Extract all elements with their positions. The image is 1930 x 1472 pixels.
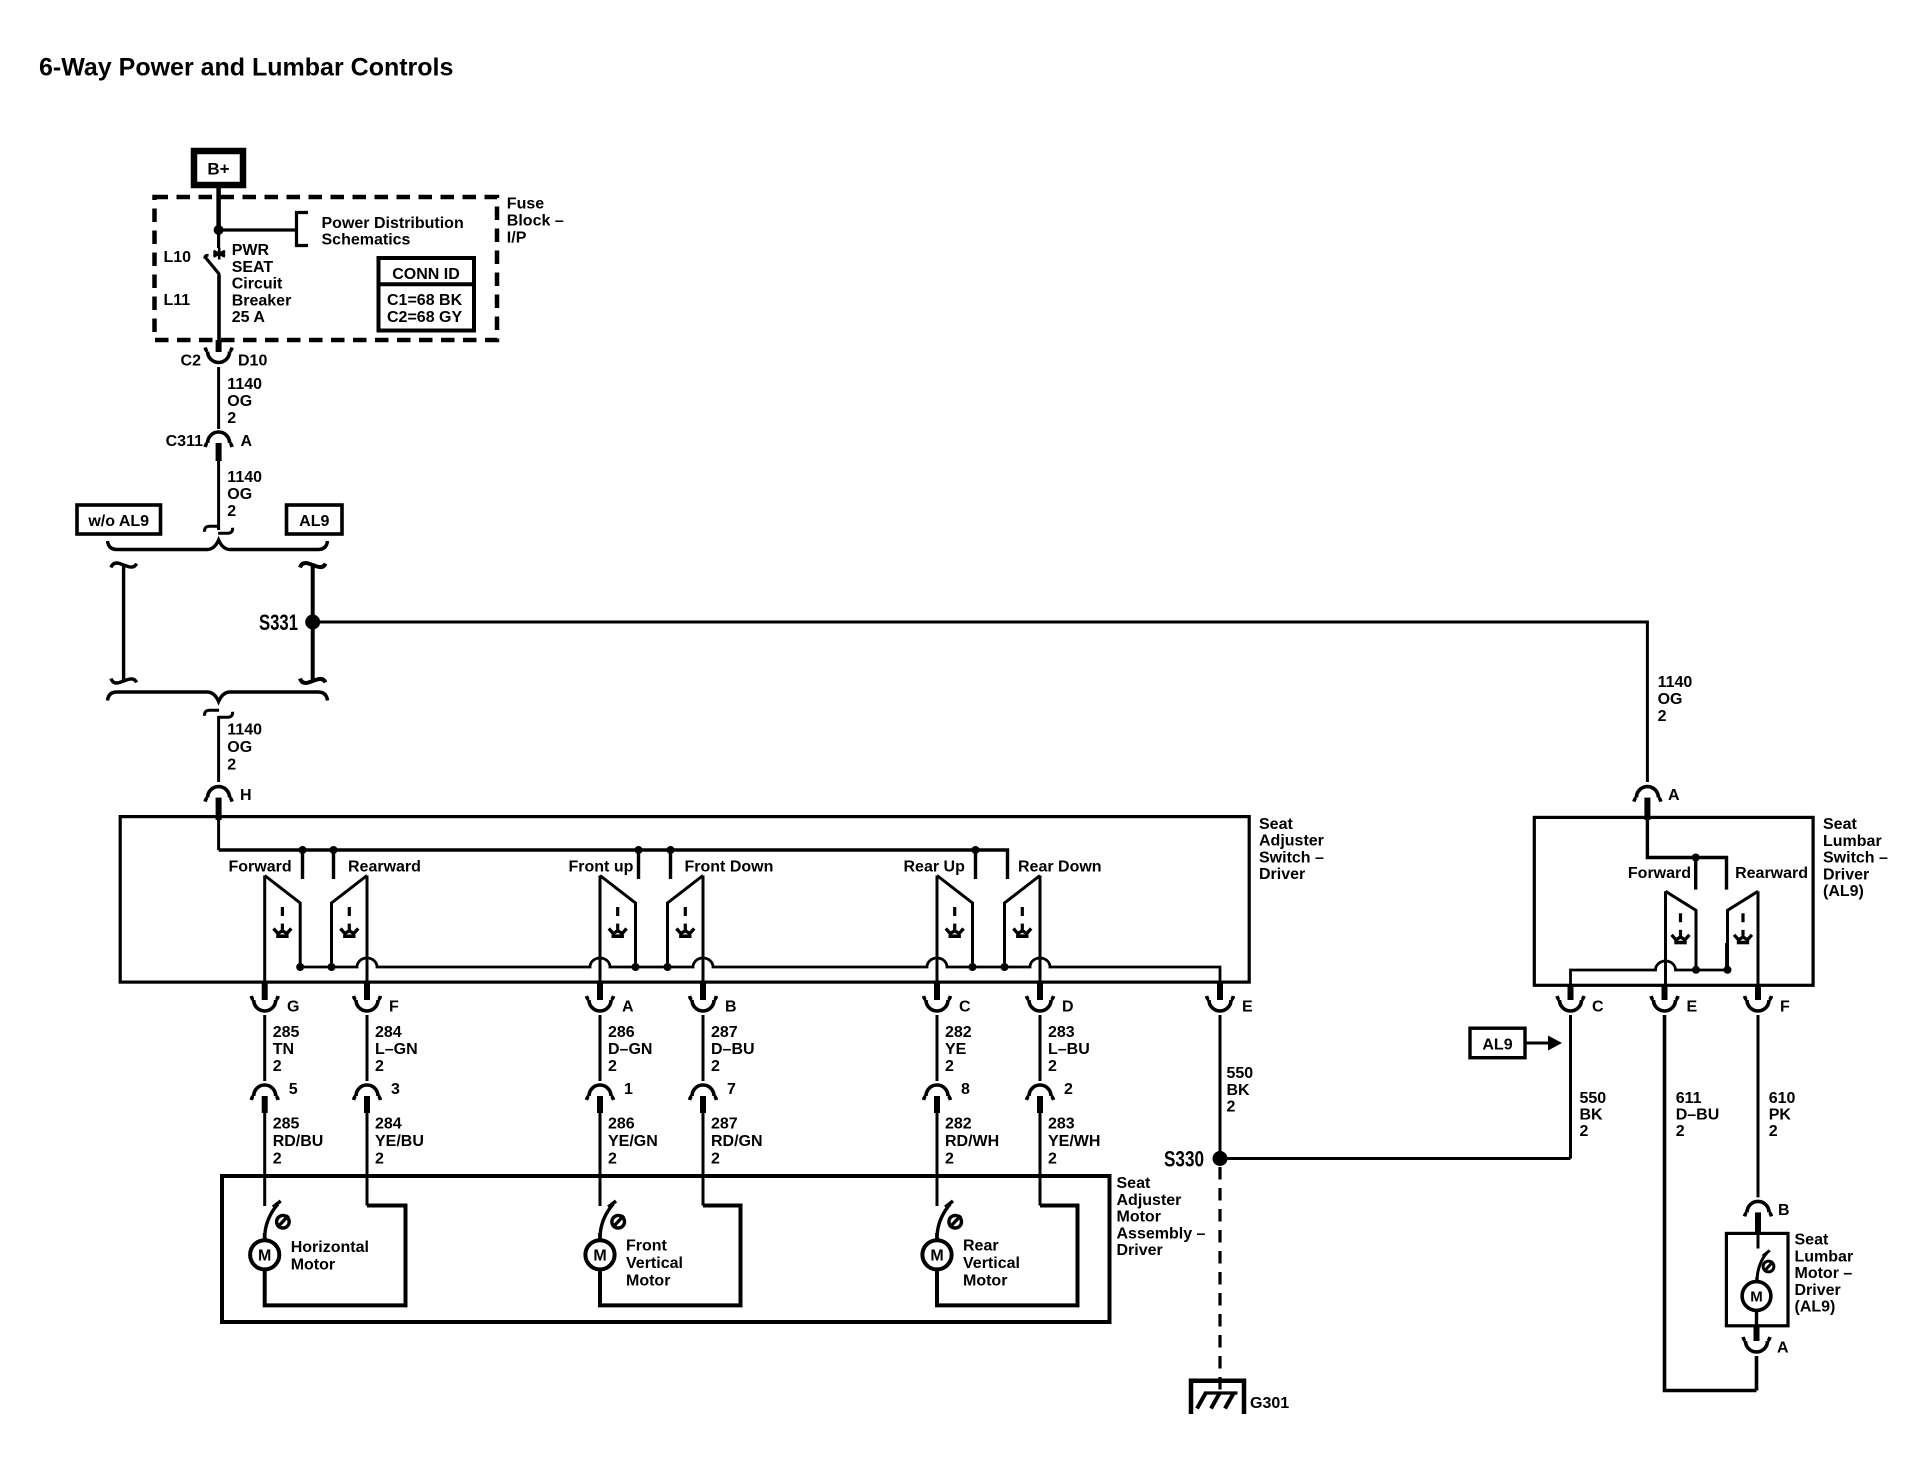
connector F [354, 981, 400, 1016]
switch Forward (lumbar) [1666, 891, 1701, 985]
splice S331 [305, 615, 320, 630]
svg-text:1: 1 [624, 1081, 633, 1098]
motor pin 7 [690, 1081, 737, 1113]
motor pin 5 [251, 1081, 298, 1113]
connector C [924, 981, 972, 1016]
svg-text:6-Way Power and Lumbar Control: 6-Way Power and Lumbar Controls [39, 54, 453, 82]
svg-text:Forward: Forward [1628, 865, 1691, 882]
svg-text:A: A [1777, 1340, 1789, 1357]
svg-text:7: 7 [727, 1081, 736, 1098]
motor pin 1 [587, 1081, 634, 1113]
connector G [251, 981, 299, 1016]
front vertical motor loop wire [600, 1206, 741, 1306]
wire pin5 to motor [263, 1113, 266, 1206]
connector E [1207, 981, 1254, 1016]
wire S331 to lumbar switch [318, 622, 1647, 782]
wire break hooks [205, 710, 233, 717]
horizontal motor M1 [250, 1233, 369, 1274]
svg-text:3: 3 [391, 1081, 400, 1098]
svg-text:B+: B+ [207, 160, 229, 179]
wire pin3 to motor [366, 1113, 369, 1206]
lumbar motor M [1742, 1277, 1771, 1310]
return line to pin E with hops [300, 958, 1220, 983]
power bus in switch box [219, 850, 1008, 879]
svg-text:Rearward: Rearward [1735, 865, 1808, 882]
junction dot [1692, 854, 1700, 862]
svg-text:Rearward: Rearward [348, 859, 421, 876]
wire B to pin 7 [702, 1015, 705, 1081]
lumbar motor blade [1757, 1235, 1774, 1277]
switch Front up [600, 876, 640, 984]
wire H to power bus [217, 818, 220, 850]
wire pin1 to motor [599, 1113, 602, 1206]
switch Front Down (mirrored) [664, 876, 704, 984]
svg-text:S330: S330 [1164, 1147, 1204, 1172]
svg-text:CONN ID: CONN ID [392, 266, 460, 283]
wire F to lumbar motor pin B [1757, 1015, 1760, 1197]
svg-text:Front up: Front up [569, 859, 634, 876]
svg-text:S331: S331 [259, 610, 298, 635]
left option bracket [111, 563, 137, 683]
horizontal motor loop wire [265, 1206, 406, 1306]
switch Rearward (lumbar, mirrored) [1724, 891, 1759, 985]
connector C (lumbar) [1557, 984, 1604, 1016]
svg-text:2: 2 [1064, 1081, 1073, 1098]
svg-text:C1=68 BK: C1=68 BK [387, 292, 463, 309]
option pointer AL9 [1470, 1028, 1562, 1058]
switch Forward [265, 876, 305, 984]
wire pin2 to motor [1039, 1113, 1042, 1206]
fuse block I/P dashed box [155, 197, 498, 340]
svg-text:G: G [287, 999, 299, 1016]
svg-text:E: E [1242, 999, 1253, 1016]
svg-text:C2=68 GY: C2=68 GY [387, 309, 462, 326]
ground G301 [1191, 1381, 1244, 1414]
wire pin7 to motor [702, 1113, 705, 1206]
top option brace [108, 540, 328, 550]
lumbar bus stub [1694, 858, 1697, 890]
svg-text:Forward: Forward [229, 859, 292, 876]
motor pin 2 [1027, 1081, 1074, 1113]
bottom option brace [108, 692, 328, 702]
rear vertical motor switch blade [937, 1201, 961, 1233]
ground wire dashed to G301 [1218, 1167, 1221, 1392]
junction dots on bus [299, 846, 980, 854]
svg-text:L10: L10 [164, 249, 192, 266]
wire 1140 OG 2 [217, 367, 220, 429]
wire C to S330 [1569, 1015, 1572, 1159]
switch Rear Up [937, 876, 977, 984]
connector H into seat adjuster switch [205, 787, 251, 820]
wire junction to schematic bracket [219, 228, 297, 231]
horizontal motor switch blade [265, 1201, 289, 1233]
rear vertical motor M3 [922, 1233, 1020, 1290]
svg-text:G301: G301 [1250, 1395, 1289, 1412]
svg-text:C: C [959, 999, 971, 1016]
svg-text:B: B [725, 999, 737, 1016]
wire D to pin 2 [1039, 1015, 1042, 1081]
lumbar power feed wire [1647, 818, 1726, 890]
svg-text:8: 8 [961, 1081, 970, 1098]
connector B lumbar motor [1745, 1201, 1790, 1235]
junction node [214, 225, 224, 235]
connector B [690, 981, 737, 1016]
wire C to pin 8 [936, 1015, 939, 1081]
svg-text:A: A [241, 433, 253, 450]
svg-text:D10: D10 [238, 353, 267, 370]
svg-text:AL9: AL9 [1482, 1037, 1512, 1054]
switch Rearward (mirrored) [328, 876, 368, 984]
connector C311 pin A [166, 432, 253, 461]
svg-text:C311: C311 [166, 433, 203, 450]
splice S330 [1213, 1151, 1228, 1166]
svg-text:L11: L11 [164, 292, 191, 309]
CONN ID table [379, 258, 475, 331]
connector A [587, 981, 635, 1016]
svg-text:B: B [1778, 1202, 1790, 1219]
wire A to E return [1755, 1356, 1759, 1391]
svg-text:A: A [622, 999, 634, 1016]
connector F (lumbar) [1745, 984, 1791, 1016]
wire break hooks [205, 526, 233, 533]
svg-text:E: E [1687, 999, 1698, 1016]
option label AL9 [287, 505, 343, 534]
option label w/o AL9 [77, 505, 161, 534]
svg-text:Rear Up: Rear Up [904, 859, 966, 876]
wire S330 to lumbar pin C [1227, 1157, 1571, 1160]
svg-text:C2: C2 [181, 353, 202, 370]
seat lumbar switch box [1534, 817, 1813, 985]
wire E to S330 [1219, 1015, 1222, 1159]
svg-text:D: D [1062, 999, 1074, 1016]
connector D [1027, 981, 1074, 1016]
B+ power symbol [194, 151, 243, 185]
lumbar return line with hop [1571, 943, 1727, 987]
switch Rear Down (mirrored) [1001, 876, 1041, 984]
circuit breaker PWR SEAT 25A [205, 230, 226, 340]
seat adjuster switch box [120, 817, 1249, 983]
svg-text:C: C [1592, 999, 1604, 1016]
connector C2 pin D10 [181, 340, 268, 370]
motor pin 3 [354, 1081, 401, 1113]
wire E to lumbar motor return [1665, 1015, 1757, 1391]
connector E (lumbar) [1651, 984, 1698, 1016]
rear vertical motor loop wire [937, 1206, 1078, 1306]
right option bracket / S331 wire [300, 563, 326, 683]
motor pin 8 [924, 1081, 971, 1113]
svg-text:F: F [389, 999, 399, 1016]
svg-text:A: A [1668, 787, 1680, 804]
svg-text:M: M [1750, 1288, 1763, 1305]
breaker blade [205, 255, 209, 258]
front vertical motor switch blade [600, 1201, 624, 1233]
connector A into lumbar switch [1634, 787, 1680, 820]
wire A to pin 1 [599, 1015, 602, 1081]
seat lumbar motor box [1726, 1233, 1788, 1325]
wire 1140 OG 2 [217, 461, 220, 530]
svg-text:Rear Down: Rear Down [1018, 859, 1102, 876]
wire 1140 OG 2 to H [217, 716, 220, 782]
wire B+ to junction [216, 188, 221, 230]
thermal star [213, 248, 225, 260]
wire F to pin 3 [366, 1015, 369, 1081]
svg-text:F: F [1780, 999, 1790, 1016]
wire pin8 to motor [936, 1113, 939, 1206]
front vertical motor M2 [585, 1233, 683, 1290]
svg-text:w/o AL9: w/o AL9 [87, 513, 149, 530]
seat adjuster motor assembly box [222, 1176, 1110, 1322]
svg-text:Front Down: Front Down [685, 859, 774, 876]
connector A lumbar motor [1743, 1326, 1789, 1357]
wire G to pin 5 [263, 1015, 266, 1081]
svg-text:5: 5 [289, 1081, 298, 1098]
bus contact stubs with junctions [303, 850, 976, 879]
power distribution schematics bracket [297, 213, 309, 246]
lumbar motor bottom stub [1755, 1309, 1758, 1325]
svg-text:AL9: AL9 [299, 513, 329, 530]
svg-text:H: H [240, 787, 252, 804]
